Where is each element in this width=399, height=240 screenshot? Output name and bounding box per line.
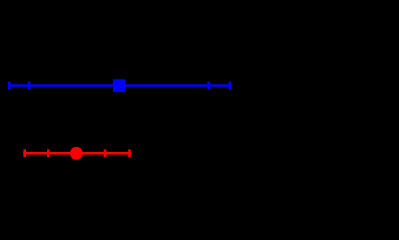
red circle marker — [70, 147, 83, 160]
red outer right cap — [128, 149, 131, 157]
blue outer left cap — [8, 82, 11, 90]
red outer left cap — [23, 149, 26, 157]
red inner left cap — [47, 149, 50, 157]
blue square marker — [113, 79, 126, 92]
blue inner left cap — [28, 82, 31, 90]
red inner right cap — [104, 149, 107, 157]
red errorbar horizontal line — [23, 152, 130, 155]
blue errorbar horizontal line — [8, 84, 231, 87]
blue outer right cap — [229, 82, 232, 90]
blue inner right cap — [208, 82, 211, 90]
